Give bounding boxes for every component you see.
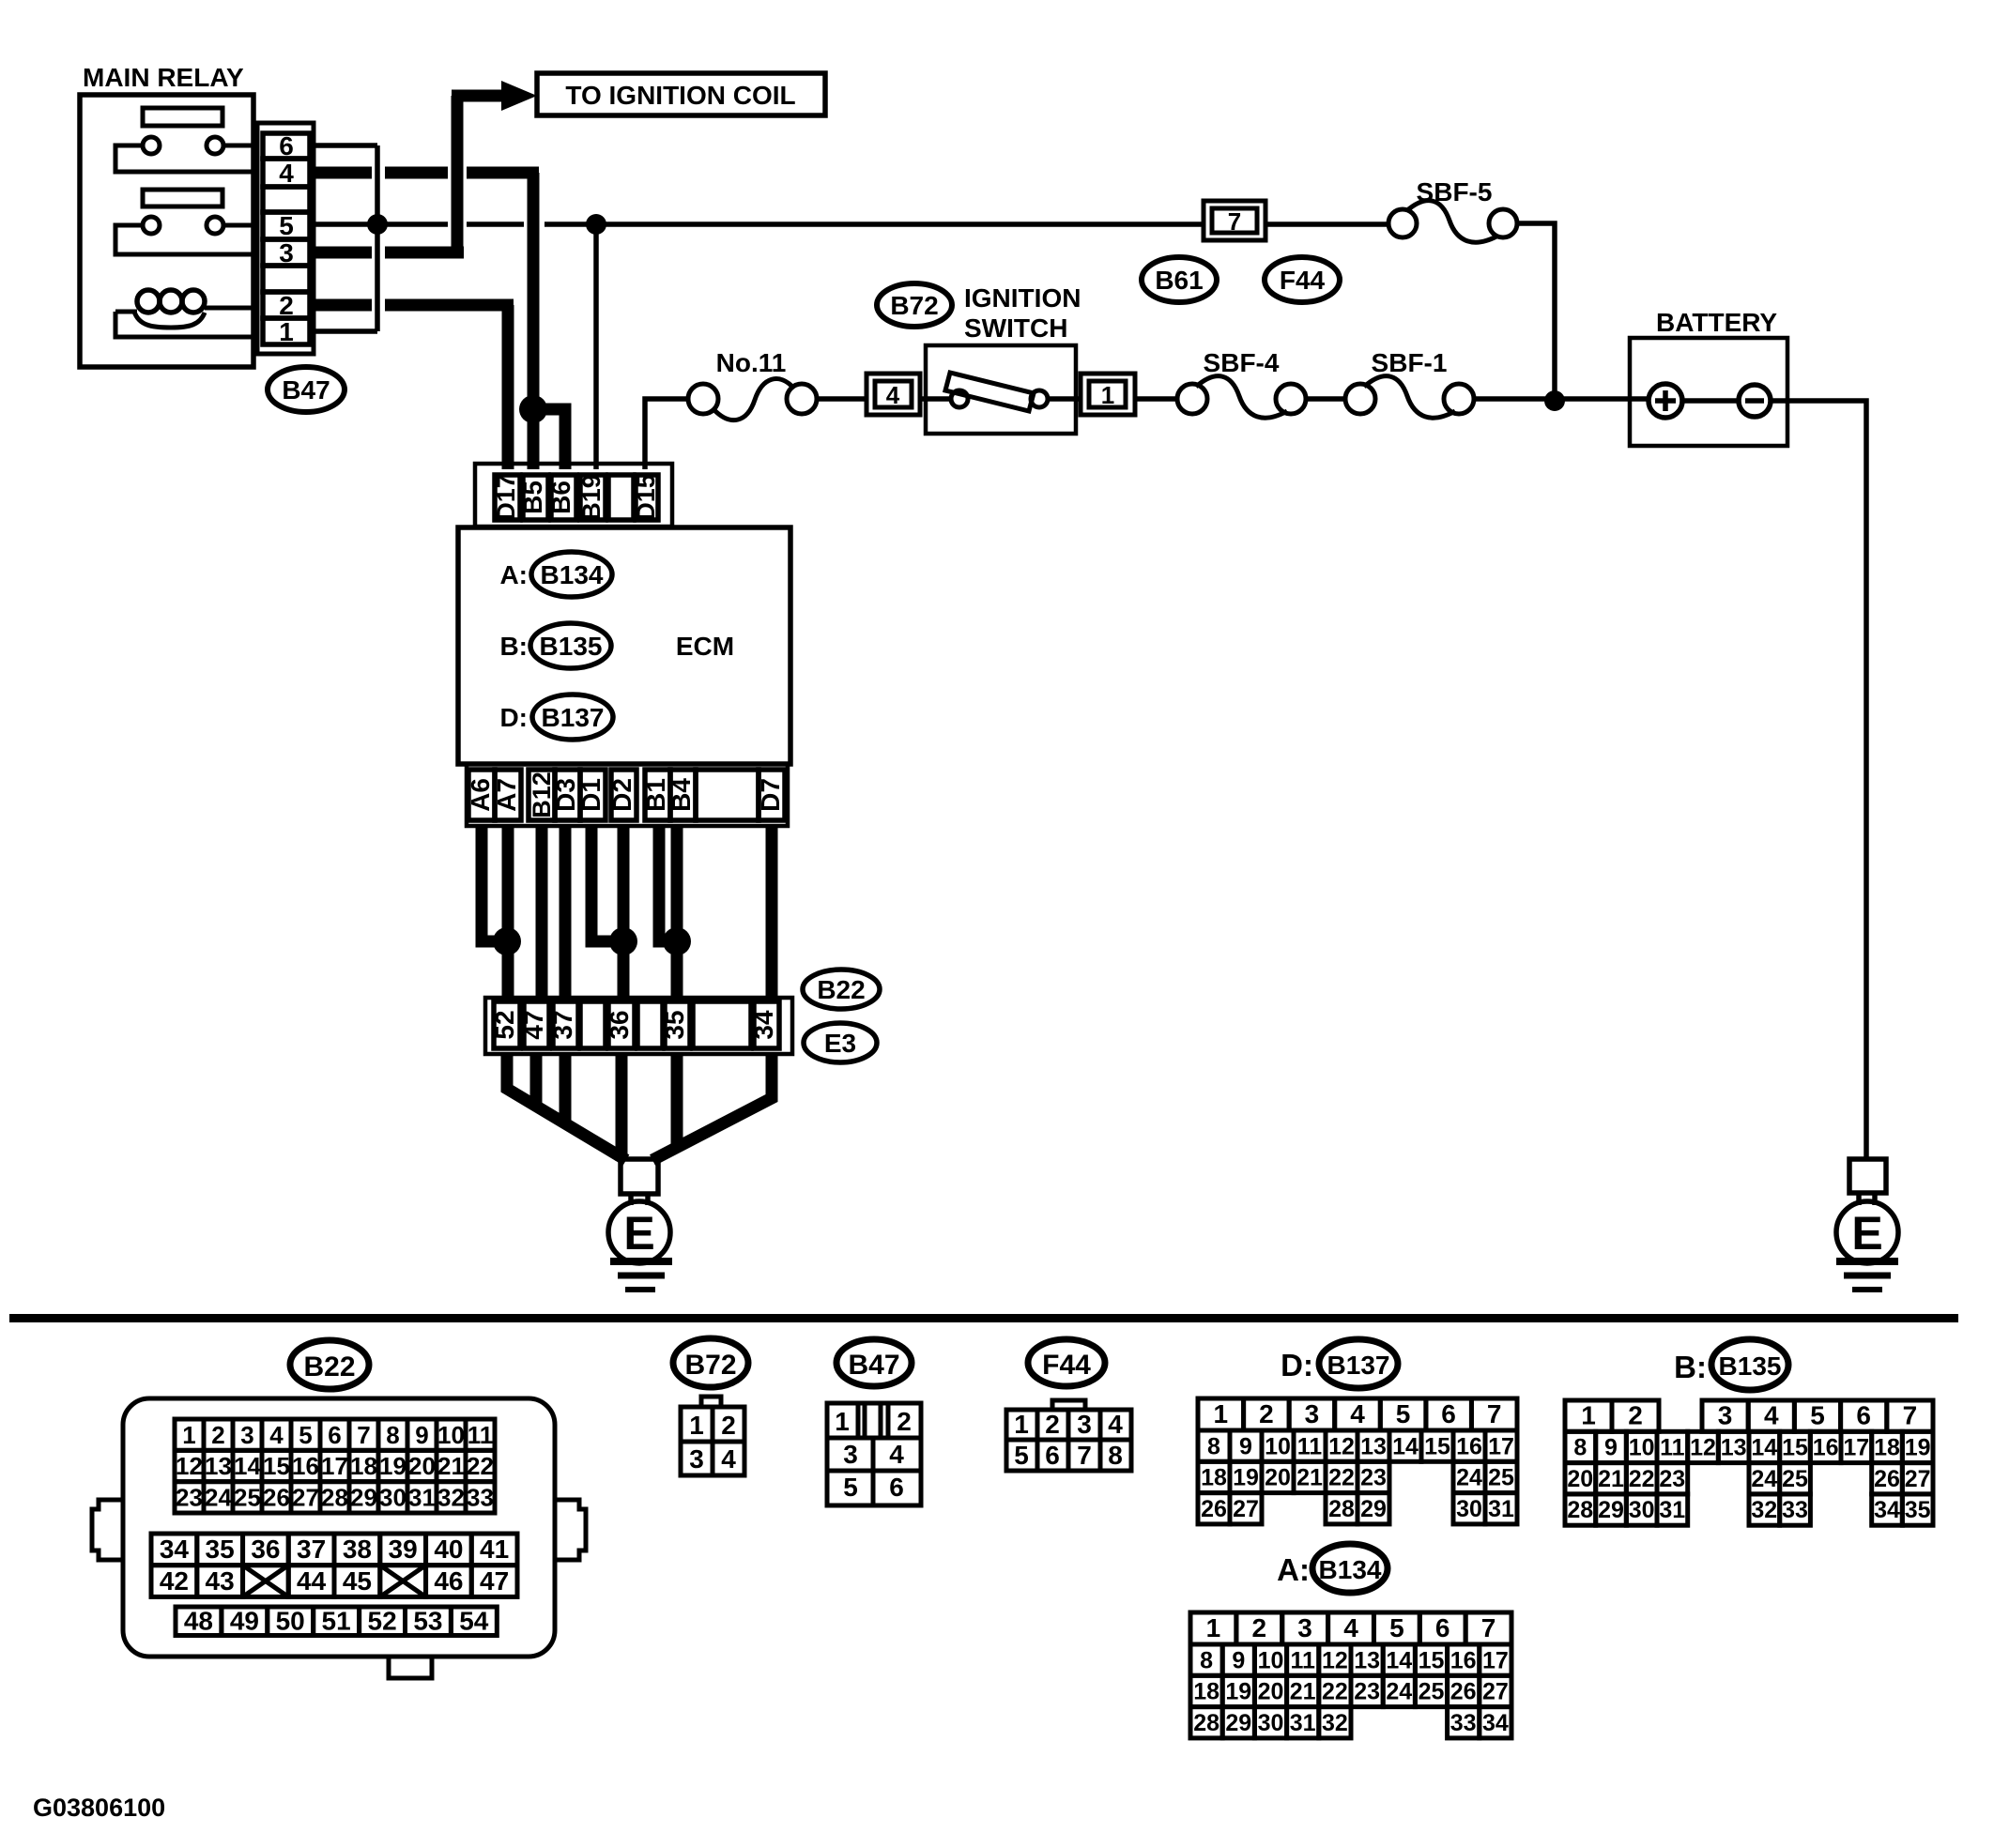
svg-text:3: 3	[240, 1421, 253, 1449]
svg-text:1: 1	[1101, 381, 1114, 409]
svg-text:A6: A6	[466, 778, 495, 812]
connector 7 box	[1204, 201, 1265, 240]
wire pin1 to vertical	[315, 328, 377, 334]
svg-text:2: 2	[1252, 1613, 1267, 1642]
svg-text:2: 2	[1259, 1399, 1274, 1428]
svg-text:4: 4	[1350, 1399, 1365, 1428]
svg-text:13: 13	[1721, 1435, 1747, 1461]
svg-text:35: 35	[206, 1535, 235, 1564]
svg-text:19: 19	[1233, 1465, 1259, 1491]
svg-text:26: 26	[1874, 1466, 1900, 1492]
svg-text:39: 39	[389, 1535, 418, 1564]
svg-text:46: 46	[434, 1566, 463, 1596]
svg-text:6: 6	[1441, 1399, 1456, 1428]
svg-text:G03806100: G03806100	[33, 1794, 165, 1822]
svg-text:1: 1	[689, 1411, 704, 1440]
wire B19 drop	[593, 224, 599, 469]
svg-text:1: 1	[279, 317, 294, 346]
connector B47 body	[827, 1403, 921, 1505]
wire B4	[671, 826, 683, 1001]
svg-text:1: 1	[835, 1407, 850, 1436]
svg-text:22: 22	[1328, 1465, 1355, 1491]
svg-text:9: 9	[415, 1421, 428, 1449]
svg-text:5: 5	[299, 1421, 312, 1449]
B22 pin grid rows 34-47	[151, 1534, 517, 1596]
svg-text:7: 7	[1228, 207, 1241, 236]
fuse SBF-4	[1177, 348, 1345, 418]
svg-text:8: 8	[386, 1421, 399, 1449]
lower connector cells	[494, 1001, 779, 1048]
svg-text:23: 23	[176, 1484, 203, 1512]
ECM bottom connector cells	[468, 770, 785, 820]
svg-text:A7: A7	[492, 778, 521, 812]
svg-text:32: 32	[1322, 1710, 1348, 1736]
svg-text:6: 6	[279, 131, 294, 160]
svg-text:21: 21	[437, 1452, 465, 1480]
svg-text:4: 4	[269, 1421, 284, 1449]
svg-text:23: 23	[1360, 1465, 1387, 1491]
svg-text:BATTERY: BATTERY	[1656, 308, 1777, 337]
svg-text:7: 7	[1077, 1441, 1092, 1470]
connector B47 pin column outline	[257, 123, 314, 354]
svg-text:IGNITION: IGNITION	[964, 283, 1081, 313]
svg-text:15: 15	[1424, 1433, 1450, 1459]
oval B22 tag	[803, 970, 880, 1009]
svg-text:26: 26	[263, 1484, 290, 1512]
svg-text:12: 12	[1322, 1647, 1348, 1673]
svg-text:51: 51	[322, 1607, 351, 1636]
svg-text:2: 2	[1045, 1410, 1060, 1439]
svg-text:47: 47	[519, 1010, 548, 1039]
svg-text:10: 10	[1629, 1435, 1655, 1461]
svg-text:B22: B22	[303, 1352, 355, 1382]
wire A7	[502, 826, 514, 1001]
svg-text:B72: B72	[890, 291, 938, 320]
svg-text:40: 40	[434, 1535, 463, 1564]
svg-text:B47: B47	[282, 375, 330, 405]
svg-text:2: 2	[279, 291, 294, 320]
svg-text:20: 20	[408, 1452, 436, 1480]
svg-text:17: 17	[1843, 1435, 1869, 1461]
svg-text:B47: B47	[848, 1350, 899, 1381]
svg-text:20: 20	[1265, 1465, 1291, 1491]
SECTION: top schematic	[80, 63, 1898, 1290]
svg-text:3: 3	[1305, 1399, 1320, 1428]
svg-text:F44: F44	[1280, 266, 1326, 295]
oval B72 heading	[673, 1338, 748, 1387]
svg-text:5: 5	[1810, 1400, 1825, 1429]
svg-text:30: 30	[1456, 1496, 1482, 1522]
oval B22 heading	[290, 1340, 369, 1389]
connector B72 body	[681, 1397, 744, 1475]
svg-text:17: 17	[321, 1452, 348, 1480]
svg-text:31: 31	[408, 1484, 436, 1512]
svg-text:11: 11	[1297, 1433, 1323, 1459]
svg-text:3: 3	[689, 1444, 704, 1474]
svg-text:E3: E3	[824, 1029, 856, 1058]
svg-text:16: 16	[1456, 1433, 1482, 1459]
svg-text:33: 33	[1450, 1710, 1477, 1736]
svg-text:25: 25	[1419, 1679, 1445, 1705]
svg-text:34: 34	[749, 1010, 778, 1040]
oval B:B135	[499, 623, 611, 668]
svg-text:B19: B19	[577, 474, 606, 521]
svg-text:25: 25	[1782, 1466, 1808, 1492]
ECM top connector outline	[475, 464, 672, 527]
svg-text:MAIN RELAY: MAIN RELAY	[83, 63, 244, 92]
svg-text:7: 7	[357, 1421, 370, 1449]
svg-text:4: 4	[1108, 1410, 1123, 1439]
svg-text:34: 34	[160, 1535, 190, 1564]
svg-text:F44: F44	[1042, 1350, 1091, 1381]
svg-text:19: 19	[379, 1452, 406, 1480]
svg-text:5: 5	[1014, 1441, 1029, 1470]
svg-text:27: 27	[1905, 1466, 1931, 1492]
svg-text:34: 34	[1874, 1497, 1900, 1523]
svg-text:1: 1	[1014, 1410, 1029, 1439]
svg-text:B135: B135	[540, 632, 603, 661]
node A6/A7 junction	[493, 927, 521, 955]
svg-text:B:: B:	[1674, 1350, 1707, 1384]
svg-text:22: 22	[467, 1452, 494, 1480]
svg-text:30: 30	[379, 1484, 406, 1512]
wire B6 branch	[533, 409, 565, 469]
svg-text:5: 5	[1389, 1613, 1404, 1642]
svg-text:9: 9	[1604, 1435, 1618, 1461]
svg-text:B137: B137	[1327, 1351, 1390, 1380]
node SBF5/battery junction	[1544, 390, 1565, 411]
wire D2	[618, 826, 630, 1001]
svg-text:B134: B134	[541, 560, 604, 589]
svg-text:33: 33	[467, 1484, 494, 1512]
svg-text:4: 4	[1343, 1613, 1358, 1642]
B22 pin grid row 48-54	[176, 1607, 497, 1636]
fuse No.11	[688, 348, 867, 420]
svg-text:SWITCH: SWITCH	[964, 313, 1067, 343]
wire B12	[536, 826, 548, 1001]
svg-text:2: 2	[1628, 1400, 1643, 1429]
svg-text:6: 6	[1856, 1400, 1871, 1429]
svg-text:E: E	[1851, 1207, 1882, 1260]
svg-text:34: 34	[1482, 1710, 1509, 1736]
oval B61	[1142, 257, 1217, 302]
ground E right circle	[1836, 1193, 1898, 1263]
node B19 junction	[586, 214, 606, 235]
svg-text:14: 14	[1392, 1433, 1419, 1459]
svg-text:52: 52	[368, 1607, 397, 1636]
ECM bottom pin labels	[466, 771, 785, 818]
svg-text:24: 24	[205, 1484, 232, 1512]
wire D1	[591, 826, 618, 941]
svg-text:2: 2	[721, 1411, 736, 1440]
svg-text:35: 35	[1905, 1497, 1931, 1523]
wire pin2 thick to ECM D17	[315, 305, 514, 469]
svg-text:D15: D15	[632, 474, 660, 521]
svg-text:1: 1	[1206, 1613, 1221, 1642]
svg-text:31: 31	[1488, 1496, 1514, 1522]
ECM top connector cells	[495, 475, 658, 520]
svg-text:5: 5	[843, 1473, 858, 1502]
wire switch to SBF-4	[1135, 396, 1177, 402]
svg-text:36: 36	[251, 1535, 280, 1564]
svg-text:D2: D2	[607, 778, 637, 812]
oval B72	[877, 283, 952, 327]
svg-text:38: 38	[343, 1535, 372, 1564]
relay contact 2 terminals	[115, 217, 253, 254]
svg-text:20: 20	[1258, 1679, 1284, 1705]
svg-text:32: 32	[437, 1484, 465, 1512]
wire pin5 to B+ node	[315, 221, 448, 227]
svg-text:4: 4	[721, 1444, 736, 1474]
ground E left circle	[608, 1194, 670, 1263]
svg-text:47: 47	[480, 1566, 509, 1596]
relay coil	[115, 290, 253, 337]
svg-text:11: 11	[468, 1421, 494, 1449]
wire pin4 thick to ECM B5	[315, 173, 539, 469]
wire B+ line to connector 7	[467, 221, 1204, 227]
svg-text:4: 4	[279, 159, 294, 188]
svg-text:15: 15	[263, 1452, 290, 1480]
svg-text:37: 37	[548, 1010, 577, 1039]
connector B47 pin cells	[263, 133, 310, 344]
SECTION: bottom connector views	[9, 1314, 1958, 1822]
ground E left connector box	[621, 1159, 658, 1194]
svg-text:3: 3	[1718, 1400, 1733, 1429]
svg-text:4: 4	[889, 1440, 904, 1469]
ignition switch box	[920, 345, 1081, 434]
svg-text:14: 14	[1386, 1647, 1412, 1673]
svg-text:No.11: No.11	[716, 348, 787, 377]
connector B:B135 pin grid	[1565, 1400, 1933, 1525]
ECM top pin labels	[492, 474, 660, 521]
node B1/B4 junction	[663, 927, 691, 955]
svg-text:7: 7	[1481, 1613, 1496, 1642]
svg-text:11: 11	[1290, 1647, 1315, 1673]
svg-text:5: 5	[1396, 1399, 1411, 1428]
wire vertical pin6-pin1	[375, 145, 380, 331]
svg-text:54: 54	[459, 1607, 489, 1636]
wire 36 to ground	[616, 1054, 628, 1161]
svg-text:25: 25	[1488, 1465, 1514, 1491]
svg-text:52: 52	[490, 1010, 519, 1039]
svg-text:24: 24	[1751, 1466, 1777, 1492]
wire 34 to ground	[652, 1054, 772, 1160]
svg-text:12: 12	[1690, 1435, 1716, 1461]
svg-text:3: 3	[843, 1440, 858, 1469]
svg-text:35: 35	[660, 1010, 689, 1039]
svg-text:B4: B4	[667, 778, 696, 812]
svg-text:4: 4	[1764, 1400, 1779, 1429]
svg-text:13: 13	[1360, 1433, 1387, 1459]
wire 52 to ground	[507, 1054, 626, 1160]
svg-text:TO IGNITION COIL: TO IGNITION COIL	[565, 81, 795, 110]
svg-text:26: 26	[1450, 1679, 1477, 1705]
svg-text:12: 12	[1328, 1433, 1355, 1459]
svg-text:4: 4	[886, 381, 900, 409]
svg-text:23: 23	[1354, 1679, 1380, 1705]
svg-text:D7: D7	[756, 778, 785, 812]
svg-text:3: 3	[279, 238, 294, 267]
svg-text:42: 42	[160, 1566, 189, 1596]
svg-text:28: 28	[1193, 1710, 1219, 1736]
svg-text:30: 30	[1629, 1497, 1655, 1523]
divider line	[9, 1314, 1958, 1322]
battery box	[1630, 338, 1787, 446]
svg-text:8: 8	[1108, 1441, 1123, 1470]
svg-text:1: 1	[1581, 1400, 1596, 1429]
svg-text:16: 16	[1813, 1435, 1839, 1461]
svg-text:D17: D17	[492, 474, 520, 521]
relay contact slot 1	[143, 108, 222, 126]
svg-text:16: 16	[1450, 1647, 1477, 1673]
svg-text:D:: D:	[499, 703, 528, 732]
ground symbol left	[610, 1261, 672, 1290]
oval B47 heading	[836, 1339, 912, 1386]
main relay label	[83, 63, 244, 92]
fuse SBF-5	[1265, 177, 1555, 401]
svg-text:15: 15	[1782, 1435, 1808, 1461]
svg-text:12: 12	[176, 1452, 203, 1480]
svg-text:44: 44	[297, 1566, 327, 1596]
connector A:B134 pin grid	[1190, 1612, 1511, 1738]
wire D15 to fuse No.11	[645, 399, 688, 469]
svg-text:41: 41	[480, 1535, 509, 1564]
svg-text:14: 14	[1751, 1435, 1777, 1461]
svg-text:3: 3	[1297, 1613, 1312, 1642]
connector D:B137 pin grid	[1198, 1398, 1517, 1524]
svg-text:13: 13	[1354, 1647, 1380, 1673]
svg-text:28: 28	[1328, 1496, 1355, 1522]
svg-text:ECM: ECM	[676, 632, 734, 661]
svg-text:18: 18	[350, 1452, 377, 1480]
svg-text:B135: B135	[1719, 1352, 1782, 1381]
svg-text:18: 18	[1193, 1679, 1219, 1705]
relay contact 1 terminals	[115, 137, 253, 172]
fuse SBF-1	[1345, 348, 1649, 418]
svg-text:B134: B134	[1319, 1555, 1382, 1584]
svg-text:24: 24	[1386, 1679, 1412, 1705]
svg-text:29: 29	[1225, 1710, 1251, 1736]
svg-text:6: 6	[889, 1473, 904, 1502]
svg-text:36: 36	[605, 1010, 634, 1039]
svg-text:B61: B61	[1155, 266, 1203, 295]
svg-text:13: 13	[205, 1452, 232, 1480]
svg-text:32: 32	[1751, 1497, 1777, 1523]
svg-text:22: 22	[1322, 1679, 1348, 1705]
svg-text:B137: B137	[542, 703, 605, 732]
lower connector outline	[485, 998, 792, 1054]
svg-text:D:: D:	[1281, 1348, 1313, 1382]
pin numbers 6 4 5 3 2 1	[279, 131, 294, 346]
wire pin3 thick to ignition coil arrow	[315, 81, 537, 258]
B22 pin grid rows 1-33	[175, 1419, 495, 1513]
svg-text:6: 6	[1045, 1441, 1060, 1470]
svg-text:19: 19	[1905, 1435, 1931, 1461]
relay contact slot 2	[143, 190, 222, 206]
svg-text:B72: B72	[684, 1350, 736, 1381]
svg-text:9: 9	[1239, 1433, 1252, 1459]
node pin5/B+ junction	[367, 214, 388, 235]
svg-text:E: E	[623, 1207, 654, 1260]
svg-text:A:: A:	[1277, 1552, 1310, 1587]
svg-text:29: 29	[1360, 1496, 1387, 1522]
svg-text:45: 45	[343, 1566, 372, 1596]
connector F44 body	[1006, 1400, 1131, 1471]
svg-text:50: 50	[276, 1607, 305, 1636]
wire pin6 to vertical	[315, 143, 377, 148]
ground symbol right	[1836, 1261, 1898, 1290]
svg-text:6: 6	[1435, 1613, 1450, 1642]
svg-text:SBF-4: SBF-4	[1204, 348, 1280, 377]
lower connector pin labels	[490, 1010, 778, 1040]
wire D7	[766, 826, 778, 1001]
svg-text:B22: B22	[817, 975, 865, 1004]
svg-text:11: 11	[1660, 1435, 1685, 1461]
svg-text:37: 37	[297, 1535, 326, 1564]
svg-text:7: 7	[1487, 1399, 1502, 1428]
svg-text:43: 43	[206, 1566, 235, 1596]
wire A6	[482, 826, 501, 941]
oval B:B135 heading	[1674, 1339, 1788, 1390]
svg-text:19: 19	[1225, 1679, 1251, 1705]
main relay box	[80, 95, 253, 367]
svg-text:2: 2	[211, 1421, 224, 1449]
svg-text:A:: A:	[499, 560, 528, 589]
svg-text:25: 25	[234, 1484, 261, 1512]
connector B22 body	[92, 1398, 586, 1678]
oval E3 tag	[804, 1023, 877, 1062]
wire 37 to ground	[560, 1054, 572, 1125]
svg-text:49: 49	[230, 1607, 259, 1636]
svg-text:31: 31	[1659, 1497, 1685, 1523]
svg-text:8: 8	[1200, 1647, 1213, 1673]
oval F44 heading	[1028, 1339, 1105, 1386]
node D1/D2 junction	[609, 927, 637, 955]
svg-text:8: 8	[1573, 1435, 1587, 1461]
svg-text:SBF-1: SBF-1	[1372, 348, 1448, 377]
svg-text:5: 5	[279, 211, 294, 240]
ECM box	[458, 527, 790, 764]
wire battery minus to right ground	[1771, 401, 1866, 1159]
svg-text:21: 21	[1296, 1465, 1323, 1491]
svg-text:17: 17	[1488, 1433, 1514, 1459]
oval B47	[268, 367, 345, 412]
battery label	[1656, 308, 1777, 337]
oval F44 top	[1265, 257, 1340, 302]
svg-text:20: 20	[1567, 1466, 1593, 1492]
svg-text:3: 3	[1077, 1410, 1092, 1439]
wire B1	[659, 826, 671, 941]
svg-text:15: 15	[1419, 1647, 1445, 1673]
svg-text:6: 6	[328, 1421, 341, 1449]
svg-text:1: 1	[182, 1421, 195, 1449]
ECM bottom connector outline	[467, 764, 788, 826]
svg-text:17: 17	[1482, 1647, 1509, 1673]
svg-text:SBF-5: SBF-5	[1417, 177, 1493, 206]
oval A:B134 heading	[1277, 1544, 1388, 1593]
svg-text:18: 18	[1874, 1435, 1900, 1461]
svg-text:B:: B:	[499, 632, 528, 661]
svg-text:23: 23	[1659, 1466, 1685, 1492]
svg-text:18: 18	[1201, 1465, 1227, 1491]
photo id G03806100	[33, 1794, 165, 1822]
svg-text:7: 7	[1903, 1400, 1918, 1429]
wire 35 to ground	[671, 1054, 683, 1149]
svg-text:22: 22	[1629, 1466, 1655, 1492]
wire D3	[560, 826, 572, 1001]
svg-text:10: 10	[437, 1421, 465, 1449]
svg-text:53: 53	[413, 1607, 442, 1636]
